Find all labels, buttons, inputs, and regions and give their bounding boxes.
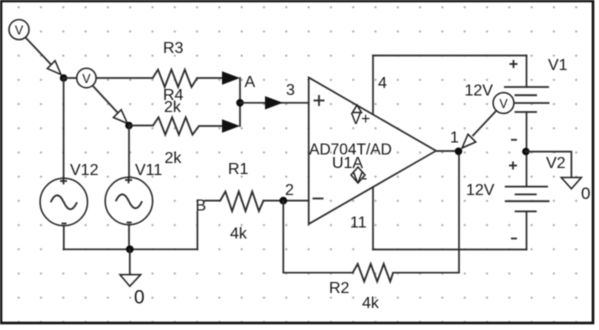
svg-text:R1: R1 <box>228 161 249 178</box>
node A vertical wire <box>239 78 241 126</box>
wire V1 bottom to V2 top <box>526 112 528 186</box>
wire node to R3 <box>64 77 153 79</box>
svg-text:V-: V- <box>353 170 368 187</box>
wire R4 to node A column <box>199 125 226 127</box>
op-amp plus input mark <box>314 95 325 106</box>
top supply rail wire <box>373 55 527 57</box>
svg-text:V1: V1 <box>548 57 568 74</box>
wire V12 bottom <box>63 226 65 250</box>
svg-text:V: V <box>499 97 508 111</box>
wire V11 top vertical <box>128 126 130 178</box>
wire node to R4 <box>129 125 153 127</box>
ground 0 symbol <box>120 249 141 286</box>
op-amp V+ power marker <box>351 105 370 128</box>
svg-text:12V: 12V <box>465 83 494 100</box>
sine source V12 <box>40 178 87 226</box>
svg-text:0: 0 <box>134 288 145 309</box>
op-amp U1A triangle <box>309 78 436 225</box>
svg-text:4: 4 <box>378 75 387 92</box>
svg-text:V+: V+ <box>351 111 370 128</box>
voltage probe marker P3 <box>462 93 514 148</box>
resistor R2 <box>353 264 393 282</box>
V1 plus mark <box>510 60 518 68</box>
svg-text:4k: 4k <box>362 295 380 312</box>
wire node B to R1 <box>205 200 220 202</box>
node junction at V12 top <box>60 74 68 82</box>
op-amp output stub pin 1 <box>436 150 456 152</box>
node 2 junction dot <box>279 197 287 205</box>
battery V1 <box>504 87 550 112</box>
svg-text:3: 3 <box>286 82 295 99</box>
output node 1 dot <box>455 148 463 156</box>
wire mid node to ground <box>526 152 572 178</box>
voltage probe marker P2 <box>77 68 128 123</box>
bottom supply rail wire <box>373 249 527 251</box>
wire node B down <box>196 212 198 250</box>
resistor R4 <box>153 117 199 134</box>
svg-text:2: 2 <box>285 182 294 199</box>
wire V11 bottom <box>128 225 130 250</box>
wire V12 top vertical <box>63 78 65 179</box>
svg-text:V12: V12 <box>70 162 99 179</box>
ground 0 symbol right <box>561 178 581 189</box>
op-amp V- power marker <box>351 167 367 187</box>
svg-text:12V: 12V <box>466 182 495 199</box>
arrowhead into node A from R3 <box>222 71 240 84</box>
wire node 2 down to R2 <box>283 201 352 273</box>
svg-text:V: V <box>82 72 91 86</box>
V1 minus mark <box>511 139 517 141</box>
supply mid node dot <box>522 148 530 156</box>
ground junction dot <box>126 245 134 253</box>
svg-text:R3: R3 <box>163 40 184 57</box>
wire V1 battery top <box>526 56 528 88</box>
op-amp minus input mark <box>313 198 324 200</box>
svg-text:V2: V2 <box>546 155 566 172</box>
svg-text:V: V <box>15 24 24 38</box>
battery V2 <box>505 187 550 212</box>
V2 plus mark <box>509 162 517 170</box>
pin 11 wire <box>372 187 374 250</box>
pin 4 wire <box>372 56 374 115</box>
sine source V11 <box>105 177 152 225</box>
svg-text:1: 1 <box>450 130 459 147</box>
resistor R1 <box>220 192 263 212</box>
arrowhead into node A from R4 <box>222 119 240 132</box>
resistor R3 <box>153 70 198 87</box>
node junction at V11 top <box>125 122 133 130</box>
svg-text:R2: R2 <box>329 280 350 297</box>
wire R2 to output column <box>393 151 459 272</box>
V2 minus mark <box>511 238 517 240</box>
svg-text:11: 11 <box>350 215 367 232</box>
svg-text:R4: R4 <box>163 87 184 104</box>
svg-text:2k: 2k <box>165 150 183 167</box>
wire node A to op-amp pin 3 <box>240 102 309 104</box>
svg-text:U1A: U1A <box>332 155 363 172</box>
svg-text:0: 0 <box>581 184 590 203</box>
svg-text:A: A <box>245 74 256 91</box>
voltage probe marker P1 <box>9 20 61 75</box>
arrowhead on pin 3 wire <box>265 96 283 109</box>
ground rail wire <box>64 248 198 250</box>
wire R1 to op-amp pin 2 <box>263 200 308 202</box>
wire V2 bottom to rail <box>526 211 528 249</box>
wire R3 to node A column <box>197 77 226 79</box>
svg-text:V11: V11 <box>135 162 162 179</box>
svg-text:4k: 4k <box>230 226 248 243</box>
node A junction dot <box>236 99 244 107</box>
